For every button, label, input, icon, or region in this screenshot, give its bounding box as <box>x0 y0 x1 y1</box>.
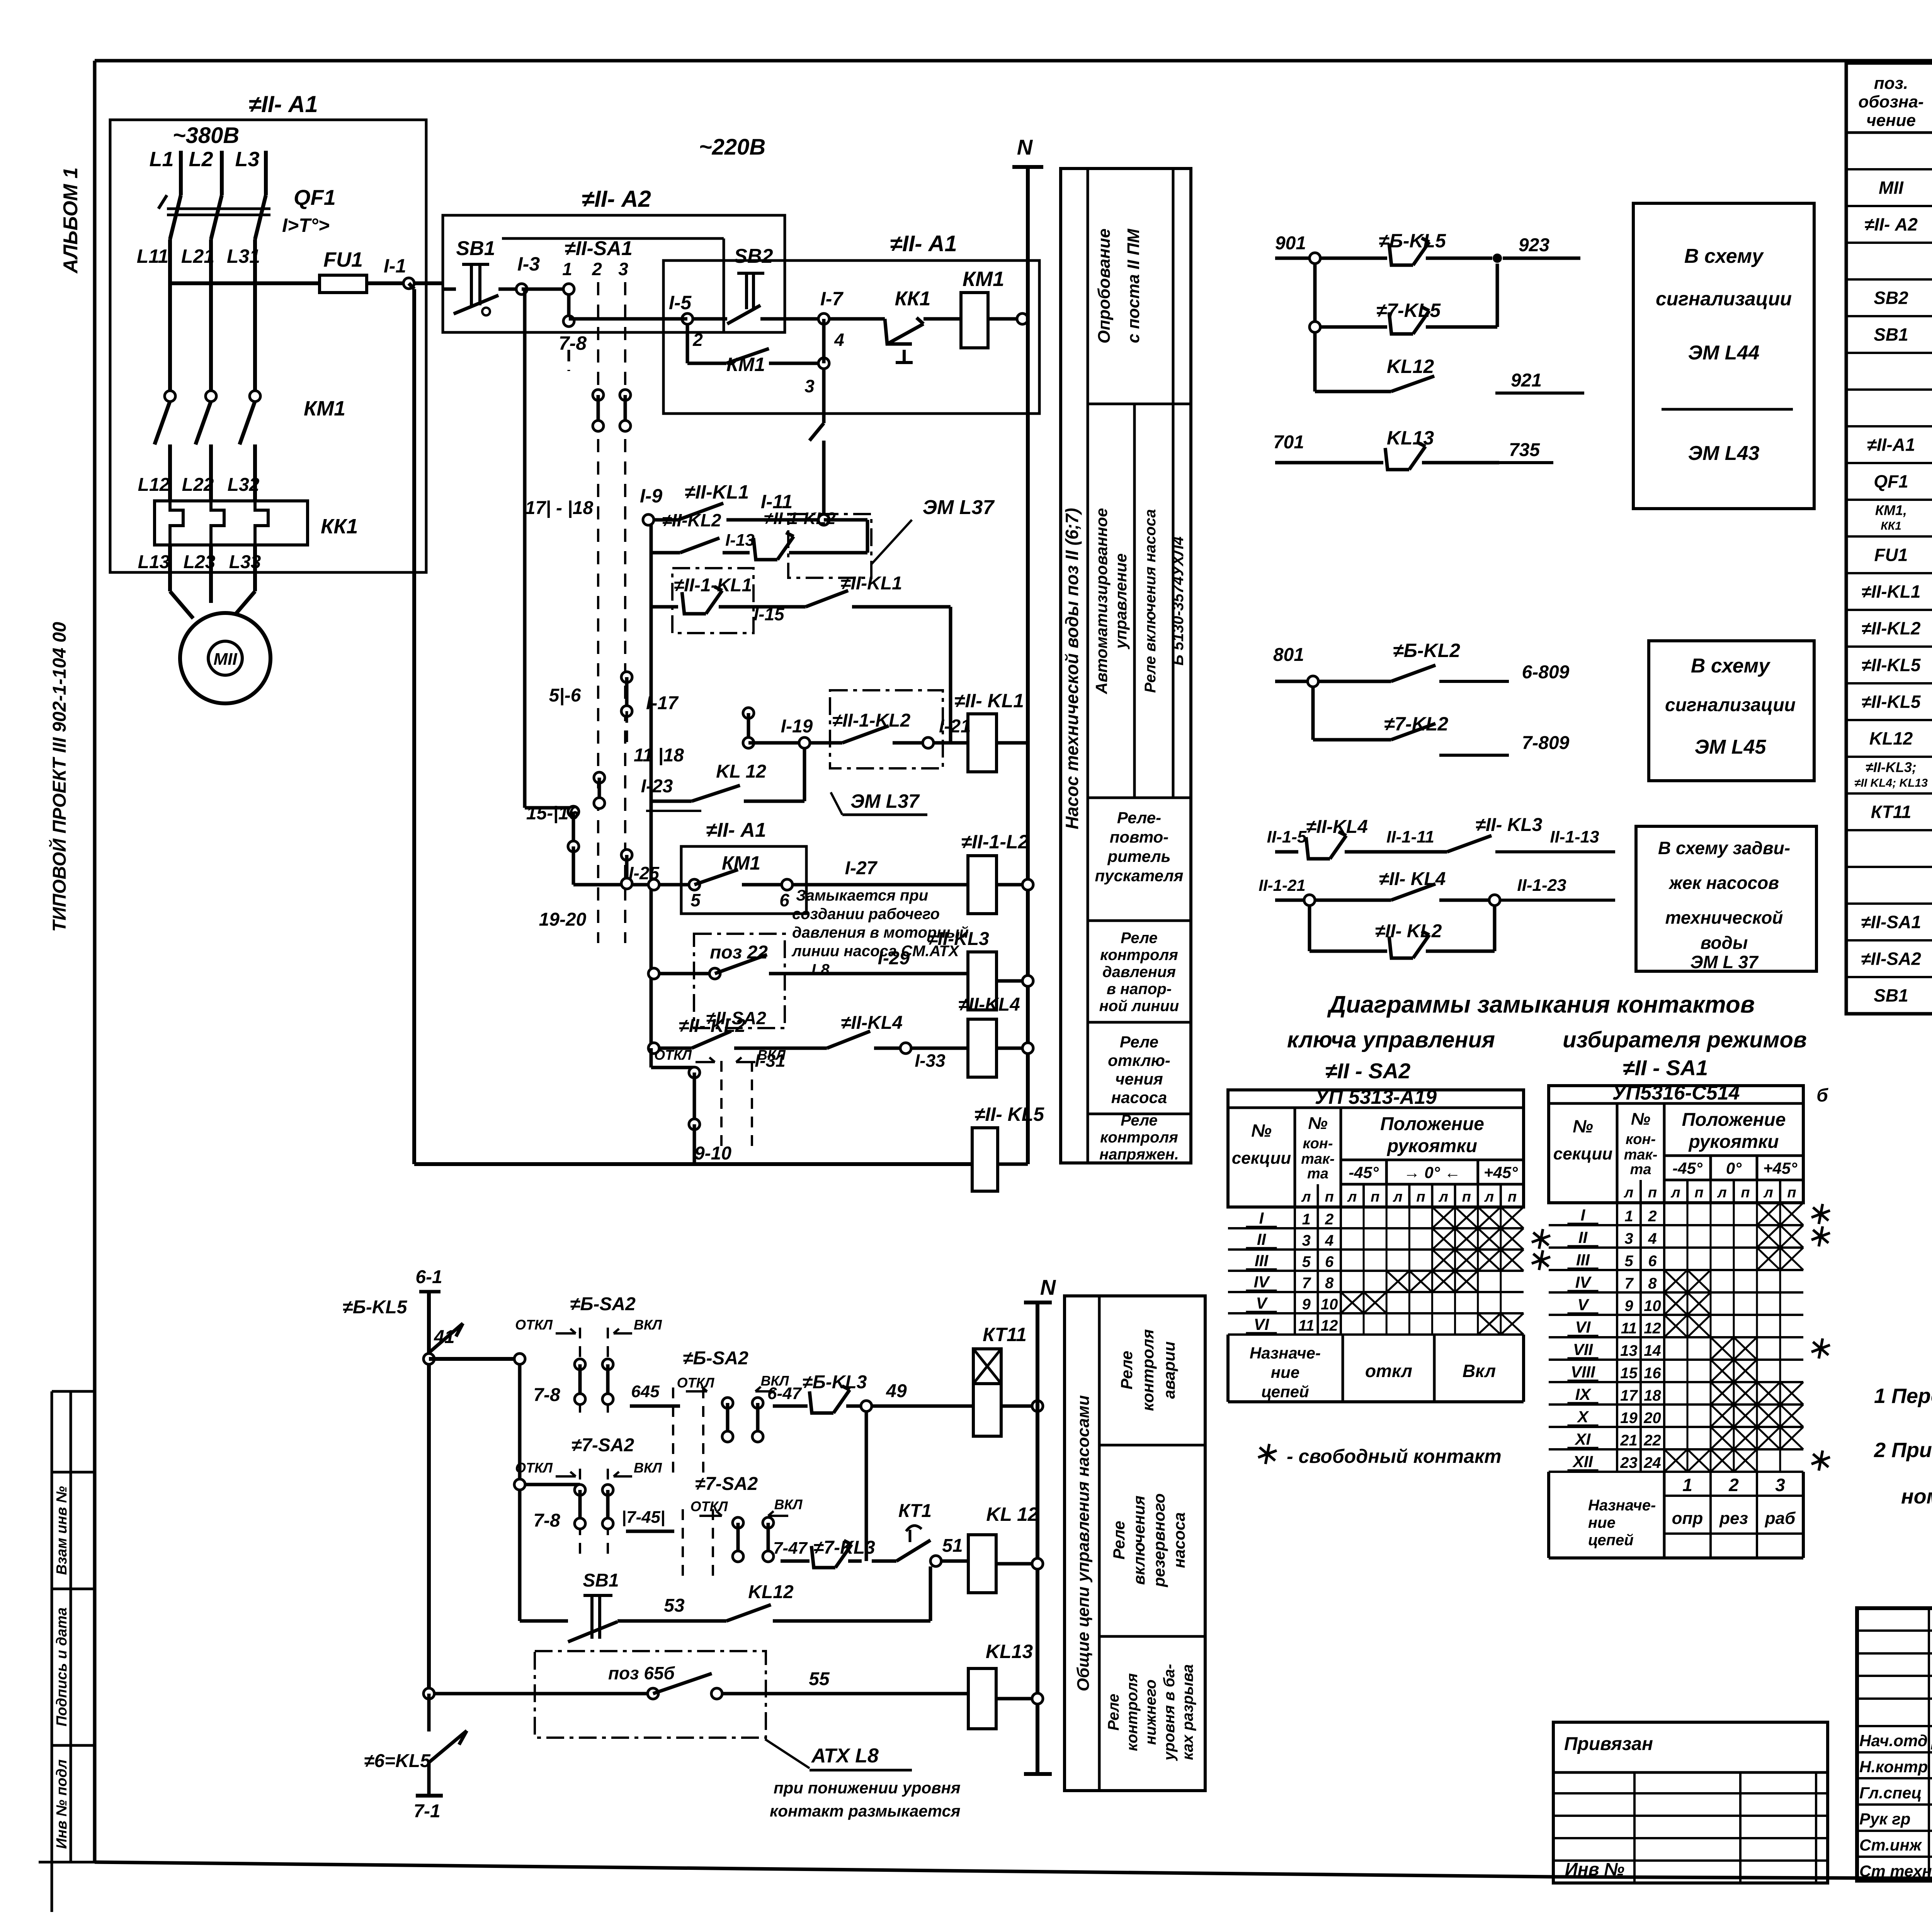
parts row МII <box>1879 178 1932 199</box>
svg-text:≠II- KL4: ≠II- KL4 <box>1379 869 1446 889</box>
svg-text:≠7-SA2: ≠7-SA2 <box>571 1435 634 1456</box>
svg-text:≠II-KL5: ≠II-KL5 <box>1861 655 1921 675</box>
thermal relay KK1 heaters <box>138 475 358 572</box>
svg-text:N: N <box>1040 1275 1056 1299</box>
signal box EM L44 L43 <box>1633 203 1814 509</box>
svg-text:I>T°>: I>T°> <box>282 215 330 236</box>
svg-text:≠II-KL2: ≠II-KL2 <box>1861 618 1920 638</box>
svg-text:Подпись и дата: Подпись и дата <box>54 1607 70 1726</box>
svg-text:IV: IV <box>1575 1273 1592 1291</box>
svg-text:≠II - SA1: ≠II - SA1 <box>1623 1056 1708 1080</box>
svg-text:II-1-21: II-1-21 <box>1259 876 1305 894</box>
time contact KT1 <box>872 1501 968 1566</box>
svg-text:Реле: Реле <box>1121 1112 1158 1129</box>
button SB1 bottom <box>520 1570 649 1642</box>
svg-text:УП5316-С514: УП5316-С514 <box>1612 1082 1740 1104</box>
parts row ≠II-KL3; <box>1854 759 1932 790</box>
svg-text:ЭМ L44: ЭМ L44 <box>1688 342 1760 364</box>
svg-text:КК1: КК1 <box>1881 520 1901 533</box>
svg-text:≠Б-KL3: ≠Б-KL3 <box>803 1372 867 1393</box>
selector contact 19-20 <box>539 850 632 930</box>
svg-text:VI: VI <box>1575 1318 1591 1336</box>
svg-text:IV: IV <box>1254 1273 1270 1291</box>
svg-text:II-1-13: II-1-13 <box>1550 827 1599 846</box>
svg-text:МII: МII <box>1879 178 1904 198</box>
svg-text:ОТКЛ: ОТКЛ <box>654 1047 692 1063</box>
contactor coil KM1 <box>961 267 1028 348</box>
svg-text:9: 9 <box>1624 1297 1633 1314</box>
contact #6-KL5 bottom <box>364 1694 467 1822</box>
svg-text:II: II <box>1578 1228 1588 1246</box>
svg-text:п: п <box>1325 1189 1334 1205</box>
svg-text:6: 6 <box>1648 1253 1657 1270</box>
svg-text:49: 49 <box>886 1381 907 1401</box>
auxiliary contact KM1 seal-in <box>687 319 829 396</box>
svg-text:V: V <box>1256 1294 1268 1312</box>
svg-text:6-1: 6-1 <box>415 1267 442 1287</box>
svg-text:≠II-1-KL1: ≠II-1-KL1 <box>674 575 752 596</box>
svg-text:Вкл: Вкл <box>1463 1361 1496 1381</box>
svg-text:1: 1 <box>1302 1211 1311 1228</box>
svg-text:L21: L21 <box>181 245 214 267</box>
svg-text:4: 4 <box>1648 1230 1656 1247</box>
svg-text:2: 2 <box>1325 1211 1333 1228</box>
block #II-A2 enclosure <box>443 186 785 332</box>
note 2 <box>1874 1439 1932 1508</box>
svg-text:L13: L13 <box>138 552 170 572</box>
wire 6-1 feeder <box>415 1267 442 1359</box>
svg-text:≠II - SA2: ≠II - SA2 <box>1325 1059 1411 1083</box>
svg-text:секции: секции <box>1553 1144 1613 1163</box>
signal circuit 901 contacts #6-KL5 #7-KL5 KL12 <box>1275 230 1584 393</box>
svg-text:≠II-1-L2: ≠II-1-L2 <box>961 831 1029 853</box>
svg-text:10: 10 <box>1321 1296 1338 1313</box>
svg-text:л: л <box>1670 1185 1680 1201</box>
svg-text:20: 20 <box>1643 1410 1661 1427</box>
selector contact 15-16 <box>526 803 648 885</box>
svg-text:15: 15 <box>1620 1365 1638 1382</box>
svg-text:Реле: Реле <box>1120 1033 1158 1051</box>
svg-text:Назначе-: Назначе- <box>1588 1497 1656 1514</box>
svg-text:Рук гр: Рук гр <box>1859 1810 1910 1828</box>
title block signatures <box>1859 1731 1932 1881</box>
parts row FU1 <box>1874 545 1932 566</box>
svg-text:53: 53 <box>664 1595 685 1616</box>
note 1 <box>1874 1384 1932 1408</box>
parts row ≠II-А1 <box>1867 435 1932 456</box>
svg-text:создании рабочего: создании рабочего <box>792 906 940 923</box>
margin label Vzam inv <box>54 1486 70 1575</box>
svg-text:12: 12 <box>1321 1317 1338 1334</box>
parts row ≠II-KL2 <box>1861 618 1932 640</box>
svg-text:KL12: KL12 <box>748 1582 794 1602</box>
svg-text:QF1: QF1 <box>1874 472 1908 492</box>
relay coil #II-KL1 <box>954 690 1028 772</box>
svg-text:Реле включения насоса: Реле включения насоса <box>1142 509 1159 693</box>
svg-text:≠II-KL1: ≠II-KL1 <box>1861 582 1920 602</box>
svg-text:SB1: SB1 <box>1874 986 1908 1006</box>
bottom left stamp table <box>1553 1722 1828 1883</box>
svg-text:I-23: I-23 <box>641 776 673 797</box>
svg-text:номером электропривода (6, 7: номером электропривода (6, 7). <box>1901 1485 1932 1508</box>
svg-text:В схему задви-: В схему задви- <box>1658 838 1790 858</box>
parts row КТ11 <box>1871 802 1932 823</box>
svg-text:21: 21 <box>1620 1432 1638 1449</box>
svg-text:Гл.спец: Гл.спец <box>1859 1784 1922 1802</box>
svg-text:жек насосов: жек насосов <box>1668 873 1779 893</box>
selector SA1 dashed poles 2 3 <box>598 282 625 943</box>
svg-text:АТХ L8: АТХ L8 <box>811 1745 879 1767</box>
svg-text:L3: L3 <box>235 148 259 171</box>
contact KL12 seal <box>649 1566 930 1621</box>
svg-text:избирателя режимов: избирателя режимов <box>1563 1027 1807 1052</box>
legend cell oprobovanie <box>1095 228 1143 344</box>
svg-text:IX: IX <box>1575 1385 1592 1403</box>
rung I-9 relay contact #II-KL1 <box>640 481 829 525</box>
svg-text:2: 2 <box>1648 1208 1656 1225</box>
svg-text:≠II-KL4: ≠II-KL4 <box>1306 817 1368 837</box>
svg-text:17: 17 <box>1620 1387 1638 1404</box>
svg-text:6-47: 6-47 <box>767 1384 803 1403</box>
stray letter b <box>1816 1085 1828 1106</box>
svg-text:1: 1 <box>1624 1208 1633 1225</box>
wire rail from I-1 down <box>409 283 414 1164</box>
selector contact bars on dashed poles <box>525 390 631 518</box>
legend cell rele vklyucheniya rezervnogo <box>1110 1493 1188 1587</box>
svg-text:л: л <box>1763 1185 1773 1201</box>
svg-text:7: 7 <box>1302 1275 1311 1292</box>
svg-text:≠II- KL3: ≠II- KL3 <box>1475 815 1542 835</box>
svg-text:L22: L22 <box>182 475 214 495</box>
thermal contact KK1 <box>829 288 961 363</box>
svg-text:чения: чения <box>1115 1070 1163 1088</box>
svg-text:так-: так- <box>1301 1151 1335 1167</box>
svg-text:SB1: SB1 <box>1874 325 1908 345</box>
note ATX L8 <box>765 1739 961 1820</box>
block #II-A1 power enclosure <box>110 91 426 572</box>
svg-text:5|-6: 5|-6 <box>549 685 581 706</box>
svg-text:I-33: I-33 <box>915 1050 946 1071</box>
svg-text:≠II- А2: ≠II- А2 <box>1864 215 1918 235</box>
svg-text:X: X <box>1577 1408 1589 1426</box>
svg-text:обозна-: обозна- <box>1858 92 1923 111</box>
svg-text:≠II- А1: ≠II- А1 <box>706 819 766 841</box>
svg-text:контроля: контроля <box>1139 1329 1157 1411</box>
svg-text:≠II-KL3;: ≠II-KL3; <box>1866 759 1917 775</box>
contact #7-KL3 <box>773 1537 875 1568</box>
svg-text:7-809: 7-809 <box>1522 733 1570 753</box>
svg-text:рукоятки: рукоятки <box>1386 1136 1477 1156</box>
svg-text:№: № <box>1308 1114 1327 1133</box>
svg-text:пускателя: пускателя <box>1095 867 1183 885</box>
svg-text:3: 3 <box>804 376 815 396</box>
svg-text:701: 701 <box>1273 432 1304 453</box>
svg-text:3: 3 <box>1302 1232 1311 1249</box>
motor MII <box>170 545 270 703</box>
relay coil #II-1-L2 <box>961 831 1033 914</box>
svg-text:≠II-1-KL2: ≠II-1-KL2 <box>832 710 911 731</box>
svg-text:7: 7 <box>1624 1275 1634 1292</box>
svg-text:1 Перечень элементов соста: 1 Перечень элементов составлен для одног… <box>1874 1384 1932 1408</box>
label 380V <box>173 123 240 148</box>
svg-text:-45°: -45° <box>1349 1163 1379 1182</box>
svg-text:контроля: контроля <box>1124 1673 1141 1751</box>
svg-text:2: 2 <box>692 330 703 350</box>
svg-text:сигнализации: сигнализации <box>1665 695 1796 715</box>
svg-text:Привязан: Привязан <box>1564 1734 1653 1754</box>
svg-text:ках разрыва: ках разрыва <box>1179 1664 1196 1760</box>
svg-text:≠II-А1: ≠II-А1 <box>1867 435 1915 455</box>
svg-text:сигнализации: сигнализации <box>1656 288 1792 310</box>
svg-text:I-13: I-13 <box>725 531 755 550</box>
svg-text:+45°: +45° <box>1484 1163 1518 1182</box>
svg-text:7-8: 7-8 <box>559 332 587 354</box>
svg-text:5: 5 <box>1624 1253 1633 1270</box>
svg-text:-45°: -45° <box>1672 1159 1703 1177</box>
svg-text:2: 2 <box>592 259 602 279</box>
svg-text:4: 4 <box>834 330 844 350</box>
svg-text:I-9: I-9 <box>640 485 663 507</box>
svg-text:1: 1 <box>1682 1475 1692 1495</box>
svg-text:L11: L11 <box>137 245 168 267</box>
svg-text:5: 5 <box>690 890 701 910</box>
svg-text:Опробование: Опробование <box>1095 228 1114 343</box>
svg-text:КТ11: КТ11 <box>983 1324 1027 1345</box>
legend cell rele kontrolya urovnya <box>1105 1664 1196 1761</box>
svg-text:ОТКЛ: ОТКЛ <box>515 1317 553 1333</box>
svg-text:ЭМ L37: ЭМ L37 <box>850 790 920 812</box>
svg-text:отклю-: отклю- <box>1108 1051 1170 1069</box>
svg-text:Реле: Реле <box>1117 1351 1136 1389</box>
svg-text:Нач.отд: Нач.отд <box>1859 1731 1928 1750</box>
svg-text:0°: 0° <box>1726 1159 1742 1177</box>
svg-text:2: 2 <box>1728 1475 1739 1495</box>
selector label SA2 <box>1325 1059 1411 1083</box>
svg-text:Взам инв №: Взам инв № <box>54 1486 70 1575</box>
relay coil KL12 <box>968 1503 1043 1593</box>
svg-text:II: II <box>1257 1230 1267 1248</box>
svg-text:цепей: цепей <box>1588 1532 1634 1549</box>
svg-text:923: 923 <box>1519 235 1549 255</box>
selector #II-SA2 contact 9-10 <box>651 1008 786 1164</box>
svg-text:7-47: 7-47 <box>773 1539 808 1558</box>
legend cell rele otklyucheniya <box>1108 1033 1170 1107</box>
svg-text:7-8: 7-8 <box>533 1385 560 1405</box>
svg-text:8: 8 <box>1325 1275 1334 1292</box>
svg-text:I-7: I-7 <box>820 288 844 310</box>
svg-text:I-27: I-27 <box>845 858 878 878</box>
svg-text:III: III <box>1255 1251 1269 1270</box>
margin label Inv N podl <box>54 1759 70 1849</box>
svg-text:≠Б-SA2: ≠Б-SA2 <box>683 1348 748 1369</box>
valve circuit II-1-5 contacts #II-KL4 #II-KL3 <box>1267 815 1615 859</box>
function legend table pump <box>1061 169 1191 1163</box>
svg-text:≠6=KL5: ≠6=KL5 <box>364 1751 431 1771</box>
svg-text:ОТКЛ: ОТКЛ <box>515 1460 553 1476</box>
svg-text:VI: VI <box>1254 1315 1270 1333</box>
svg-text:п: п <box>1416 1189 1425 1205</box>
fuse FU1 <box>170 248 367 293</box>
time relay coil KT11 <box>973 1324 1043 1436</box>
svg-text:Ст.инж: Ст.инж <box>1859 1836 1922 1854</box>
svg-text:№: № <box>1251 1120 1272 1141</box>
svg-text:рез: рез <box>1719 1509 1748 1528</box>
svg-text:Реле: Реле <box>1110 1521 1128 1559</box>
svg-text:11 |18: 11 |18 <box>634 745 684 766</box>
svg-text:управление: управление <box>1112 553 1130 650</box>
svg-text:III: III <box>1576 1251 1590 1269</box>
svg-text:л: л <box>1717 1185 1727 1201</box>
svg-text:9: 9 <box>1302 1296 1311 1313</box>
selector #7-SA2 first <box>514 1435 674 1558</box>
svg-text:≠II- А1: ≠II- А1 <box>248 91 318 117</box>
rung I-19 contact #II-1-KL2 coil #II-KL1 <box>743 690 971 768</box>
svg-text:в напор-: в напор- <box>1107 981 1172 998</box>
svg-text:→ 0° ←: → 0° ← <box>1404 1163 1461 1182</box>
svg-text:КК1: КК1 <box>895 288 931 310</box>
svg-text:23: 23 <box>1620 1454 1638 1471</box>
svg-text:Диаграммы замыкания контак: Диаграммы замыкания контактов <box>1327 991 1755 1018</box>
svg-text:п: п <box>1741 1185 1750 1201</box>
svg-text:L12: L12 <box>138 475 170 495</box>
svg-text:включения: включения <box>1130 1495 1148 1585</box>
rung I-29 contact poz 22 coil #II-KL3 <box>648 929 1033 1028</box>
svg-text:Положение: Положение <box>1682 1110 1786 1130</box>
label 220V <box>699 134 766 160</box>
svg-text:11: 11 <box>1298 1317 1315 1334</box>
svg-text:так-: так- <box>1624 1147 1658 1163</box>
svg-text:1: 1 <box>562 259 572 279</box>
svg-text:I-29: I-29 <box>878 948 910 969</box>
svg-text:насоса: насоса <box>1111 1088 1167 1107</box>
svg-text:I-25: I-25 <box>629 863 660 883</box>
signal box EM L45 <box>1649 641 1814 781</box>
svg-text:п: п <box>1787 1185 1796 1201</box>
svg-text:кон-: кон- <box>1303 1136 1333 1152</box>
svg-text:УП 5313-А19: УП 5313-А19 <box>1315 1086 1437 1108</box>
svg-text:55: 55 <box>809 1669 830 1689</box>
svg-text:Ст техн: Ст техн <box>1859 1862 1932 1880</box>
svg-text:41: 41 <box>434 1327 454 1347</box>
node I-5 <box>569 292 703 350</box>
svg-text:Б 5130-3574УХЛ4: Б 5130-3574УХЛ4 <box>1170 536 1187 666</box>
svg-text:Насос технической воды поз: Насос технической воды поз II (6;7) <box>1062 508 1082 829</box>
svg-text:КМ1: КМ1 <box>722 852 760 874</box>
svg-text:ключа управления: ключа управления <box>1287 1027 1495 1052</box>
svg-text:24: 24 <box>1643 1454 1661 1471</box>
ladder left rail lower <box>650 520 653 1048</box>
svg-text:I-3: I-3 <box>517 253 540 275</box>
svg-text:8: 8 <box>1648 1275 1657 1292</box>
svg-text:L32: L32 <box>228 475 260 495</box>
svg-text:≠II- KL5: ≠II- KL5 <box>975 1103 1044 1125</box>
svg-text:17| - |18: 17| - |18 <box>525 498 594 518</box>
svg-text:п: п <box>1462 1189 1471 1205</box>
node I-3 <box>516 253 540 295</box>
svg-text:6-809: 6-809 <box>1522 662 1570 683</box>
parts row QF1 <box>1874 472 1932 493</box>
svg-text:КМ1: КМ1 <box>963 267 1004 291</box>
svg-text:L1: L1 <box>149 148 173 171</box>
breaker QF1 <box>158 185 336 239</box>
svg-text:Реле: Реле <box>1121 930 1158 947</box>
svg-text:|7-45|: |7-45| <box>622 1508 665 1527</box>
legend cell rele kontrolya davleniya <box>1099 930 1179 1015</box>
note free contact <box>1258 1444 1502 1467</box>
legend rotated text pump col <box>1062 508 1082 829</box>
signal circuit 701 contact KL13 <box>1273 427 1553 470</box>
svg-text:контакт размыкается: контакт размыкается <box>770 1802 961 1820</box>
svg-text:I: I <box>1581 1206 1586 1224</box>
svg-text:KL13: KL13 <box>1387 427 1434 449</box>
svg-text:901: 901 <box>1275 233 1306 254</box>
svg-text:7-1: 7-1 <box>413 1801 440 1822</box>
valve circuit II-1-21 contacts #II-KL4 #II-KL2 <box>1259 869 1615 958</box>
svg-text:≠Б-KL5: ≠Б-KL5 <box>343 1297 408 1318</box>
svg-text:ритель: ритель <box>1107 847 1170 865</box>
svg-text:ОТКЛ: ОТКЛ <box>690 1498 728 1514</box>
svg-text:откл: откл <box>1365 1361 1412 1381</box>
svg-text:КТ1: КТ1 <box>898 1501 932 1521</box>
svg-text:XII: XII <box>1572 1452 1594 1471</box>
svg-text:15-|16: 15-|16 <box>526 803 579 824</box>
margin label project number <box>49 622 70 932</box>
rung I-25 block A1 contact KM1 coil #II-1-L2 <box>629 819 968 914</box>
svg-text:12: 12 <box>1644 1320 1661 1337</box>
parts row KL12 <box>1869 729 1932 750</box>
svg-text:чение: чение <box>1866 111 1916 130</box>
selector #7-SA2 second <box>683 1474 803 1579</box>
parts row ≠II-KL1 <box>1861 582 1932 603</box>
svg-text:ние: ние <box>1588 1514 1616 1531</box>
svg-text:≠II-SA2: ≠II-SA2 <box>1861 949 1921 969</box>
svg-text:секции: секции <box>1232 1149 1291 1168</box>
parts row ≠II-SA2 <box>1861 949 1932 970</box>
svg-text:≠II- А1: ≠II- А1 <box>890 231 957 256</box>
svg-text:≠II-KL5: ≠II-KL5 <box>1861 692 1921 712</box>
wire FU1 to I-1 <box>367 255 443 289</box>
svg-text:II-1-23: II-1-23 <box>1517 876 1566 895</box>
svg-text:повто-: повто- <box>1110 828 1169 846</box>
svg-text:SB2: SB2 <box>1874 288 1908 308</box>
svg-text:Замыкается при: Замыкается при <box>796 887 928 904</box>
svg-text:МII: МII <box>213 650 237 669</box>
svg-text:л: л <box>1393 1189 1403 1205</box>
svg-text:КМ1: КМ1 <box>304 397 345 420</box>
svg-text:ОТКЛ: ОТКЛ <box>677 1375 715 1391</box>
selector contact I-17 <box>621 672 684 766</box>
parts row SB1 <box>1874 325 1932 346</box>
svg-text:≠II-KL3: ≠II-KL3 <box>927 929 989 949</box>
svg-text:рукоятки: рукоятки <box>1688 1132 1779 1152</box>
svg-text:контроля: контроля <box>1100 947 1178 964</box>
svg-text:Общие цепи управления насосам: Общие цепи управления насосами <box>1074 1395 1093 1691</box>
svg-text:L2: L2 <box>189 148 213 171</box>
svg-text:II-1-11: II-1-11 <box>1386 827 1434 846</box>
N rail lower <box>1024 1275 1056 1774</box>
svg-text:3: 3 <box>1624 1230 1633 1247</box>
contact #6-KL5 upper <box>343 1297 463 1353</box>
svg-text:Н.контр: Н.контр <box>1859 1758 1928 1776</box>
node 41 bus <box>423 1327 525 1694</box>
svg-text:Реле: Реле <box>1105 1694 1122 1731</box>
ladder rail from I-3 <box>525 289 572 808</box>
svg-text:№: № <box>1573 1116 1593 1136</box>
wire contact to I-11 <box>810 369 824 520</box>
parts row ≠II-SA1 <box>1861 912 1932 933</box>
svg-text:≠7-SA2: ≠7-SA2 <box>695 1474 758 1494</box>
rung I-15 contacts #II-1-KL1 #II-KL1 <box>651 568 951 743</box>
